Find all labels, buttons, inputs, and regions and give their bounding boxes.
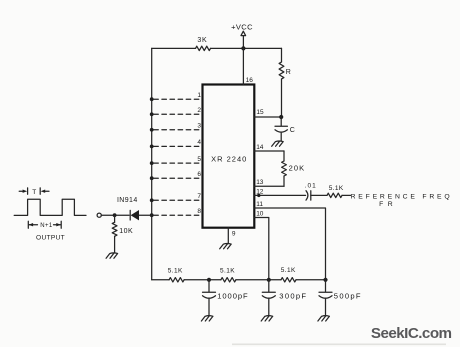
svg-text:500pF: 500pF — [334, 292, 362, 301]
svg-text:XR 2240: XR 2240 — [211, 155, 247, 164]
watermark SeekIC.com — [371, 325, 452, 342]
resistor 5.1K (right) — [281, 267, 296, 282]
svg-text:.01: .01 — [305, 182, 317, 189]
svg-text:C: C — [290, 127, 295, 134]
resistor R — [279, 48, 291, 117]
svg-text:15: 15 — [256, 109, 264, 116]
pin 3 dashed wire + junction — [150, 123, 203, 132]
svg-text:10: 10 — [256, 211, 264, 218]
pin 7 dashed wire + junction — [150, 193, 203, 202]
svg-text:1000pF: 1000pF — [217, 292, 248, 301]
pin 8 dashed wire + junction — [150, 208, 203, 217]
capacitor C — [275, 117, 295, 141]
svg-text:3: 3 — [197, 123, 201, 130]
junction: 10K/diode node — [113, 213, 117, 217]
pin 12 wire — [254, 188, 305, 197]
svg-text:OUTPUT: OUTPUT — [36, 235, 65, 242]
svg-text:5.1K: 5.1K — [329, 185, 344, 192]
svg-text:7: 7 — [197, 193, 201, 200]
power +VCC — [231, 22, 253, 48]
wire cap to resistor — [311, 194, 327, 196]
pin 2 dashed wire + junction — [150, 107, 203, 116]
pin 1 dashed wire + junction — [150, 92, 203, 101]
resistor 5.1K (middle) — [220, 267, 236, 282]
svg-text:10K: 10K — [119, 228, 133, 235]
svg-text:1: 1 — [197, 92, 201, 99]
capacitor 300pF — [262, 280, 307, 316]
resistor 5.1K (left) — [168, 267, 184, 282]
pin 11 wire — [254, 201, 325, 280]
svg-text:8: 8 — [197, 208, 201, 215]
svg-text:9: 9 — [232, 231, 236, 238]
ground (1000pF) — [201, 316, 213, 321]
svg-text:20K: 20K — [289, 163, 306, 172]
junction: 500pF node — [323, 278, 327, 282]
capacitor .01 — [305, 182, 317, 200]
svg-text:F R: F R — [379, 201, 394, 208]
svg-text:14: 14 — [256, 144, 264, 151]
pin 4 dashed wire + junction — [150, 139, 203, 148]
svg-text:13: 13 — [256, 179, 264, 186]
pin 5 dashed wire + junction — [150, 156, 203, 165]
pin 15 wire — [254, 109, 281, 117]
terminal: output (open circle) — [97, 213, 101, 217]
svg-text:+VCC: +VCC — [231, 22, 253, 31]
ground (500pF) — [318, 316, 330, 321]
junction: pin15/R/C node — [279, 115, 283, 119]
svg-text:R: R — [286, 69, 291, 76]
annotation: T interval marker — [19, 188, 49, 196]
junction: 1000pF node — [207, 278, 211, 282]
svg-text:SeekIC.com: SeekIC.com — [371, 325, 452, 342]
junction: VCC node — [241, 46, 245, 50]
ground (pin 9) — [220, 243, 232, 248]
svg-text:300pF: 300pF — [279, 292, 307, 301]
capacitor 1000pF — [203, 280, 249, 316]
resistor 3K — [196, 37, 211, 51]
waveform annotation: output pulses — [14, 199, 86, 215]
svg-text:6: 6 — [197, 171, 201, 178]
pin 10 wire — [254, 211, 268, 280]
svg-text:5.1K: 5.1K — [168, 267, 183, 274]
svg-text:T: T — [32, 189, 36, 196]
svg-text:3K: 3K — [197, 37, 207, 44]
annotation: N+1 period marker — [28, 221, 61, 229]
net label REFERENCE FREQ FR — [351, 194, 453, 208]
wire: top VCC rail from bus to R — [152, 47, 282, 49]
wire: left vertical bus — [151, 48, 153, 279]
svg-text:N+1: N+1 — [40, 223, 53, 229]
IC U1 XR2240 — [203, 85, 255, 228]
resistor 5.1K (reference branch) — [327, 185, 351, 198]
wire: bottom rail — [152, 279, 326, 281]
ground (10K) — [106, 253, 118, 258]
svg-text:16: 16 — [246, 77, 254, 84]
scan artifact: faint line — [232, 343, 446, 345]
svg-text:REFERENCE FREQ: REFERENCE FREQ — [351, 194, 453, 201]
svg-text:5: 5 — [197, 156, 201, 163]
svg-text:5.1K: 5.1K — [281, 267, 296, 274]
junction: 300pF node — [267, 278, 271, 282]
diode D1 IN914 — [117, 197, 139, 220]
svg-text:IN914: IN914 — [117, 197, 138, 204]
pin 13 wire — [254, 179, 284, 186]
pin 6 dashed wire + junction — [150, 171, 203, 180]
capacitor 500pF — [319, 280, 362, 316]
resistor 20K — [282, 151, 306, 186]
pin 9 lead + label — [228, 228, 236, 244]
svg-text:4: 4 — [197, 139, 201, 146]
pin 14 wire — [254, 144, 284, 151]
wire diode to bus (pin 8 node) — [139, 214, 152, 216]
svg-text:11: 11 — [256, 201, 263, 208]
svg-text:5.1K: 5.1K — [220, 267, 235, 274]
ground (300pF) — [261, 316, 273, 321]
svg-text:2: 2 — [197, 107, 201, 114]
pin 16 lead + label — [243, 48, 253, 84]
resistor 10K — [112, 215, 133, 253]
label OUTPUT — [36, 235, 65, 242]
ground (under C) — [272, 141, 284, 146]
wire terminal to diode — [101, 214, 129, 216]
